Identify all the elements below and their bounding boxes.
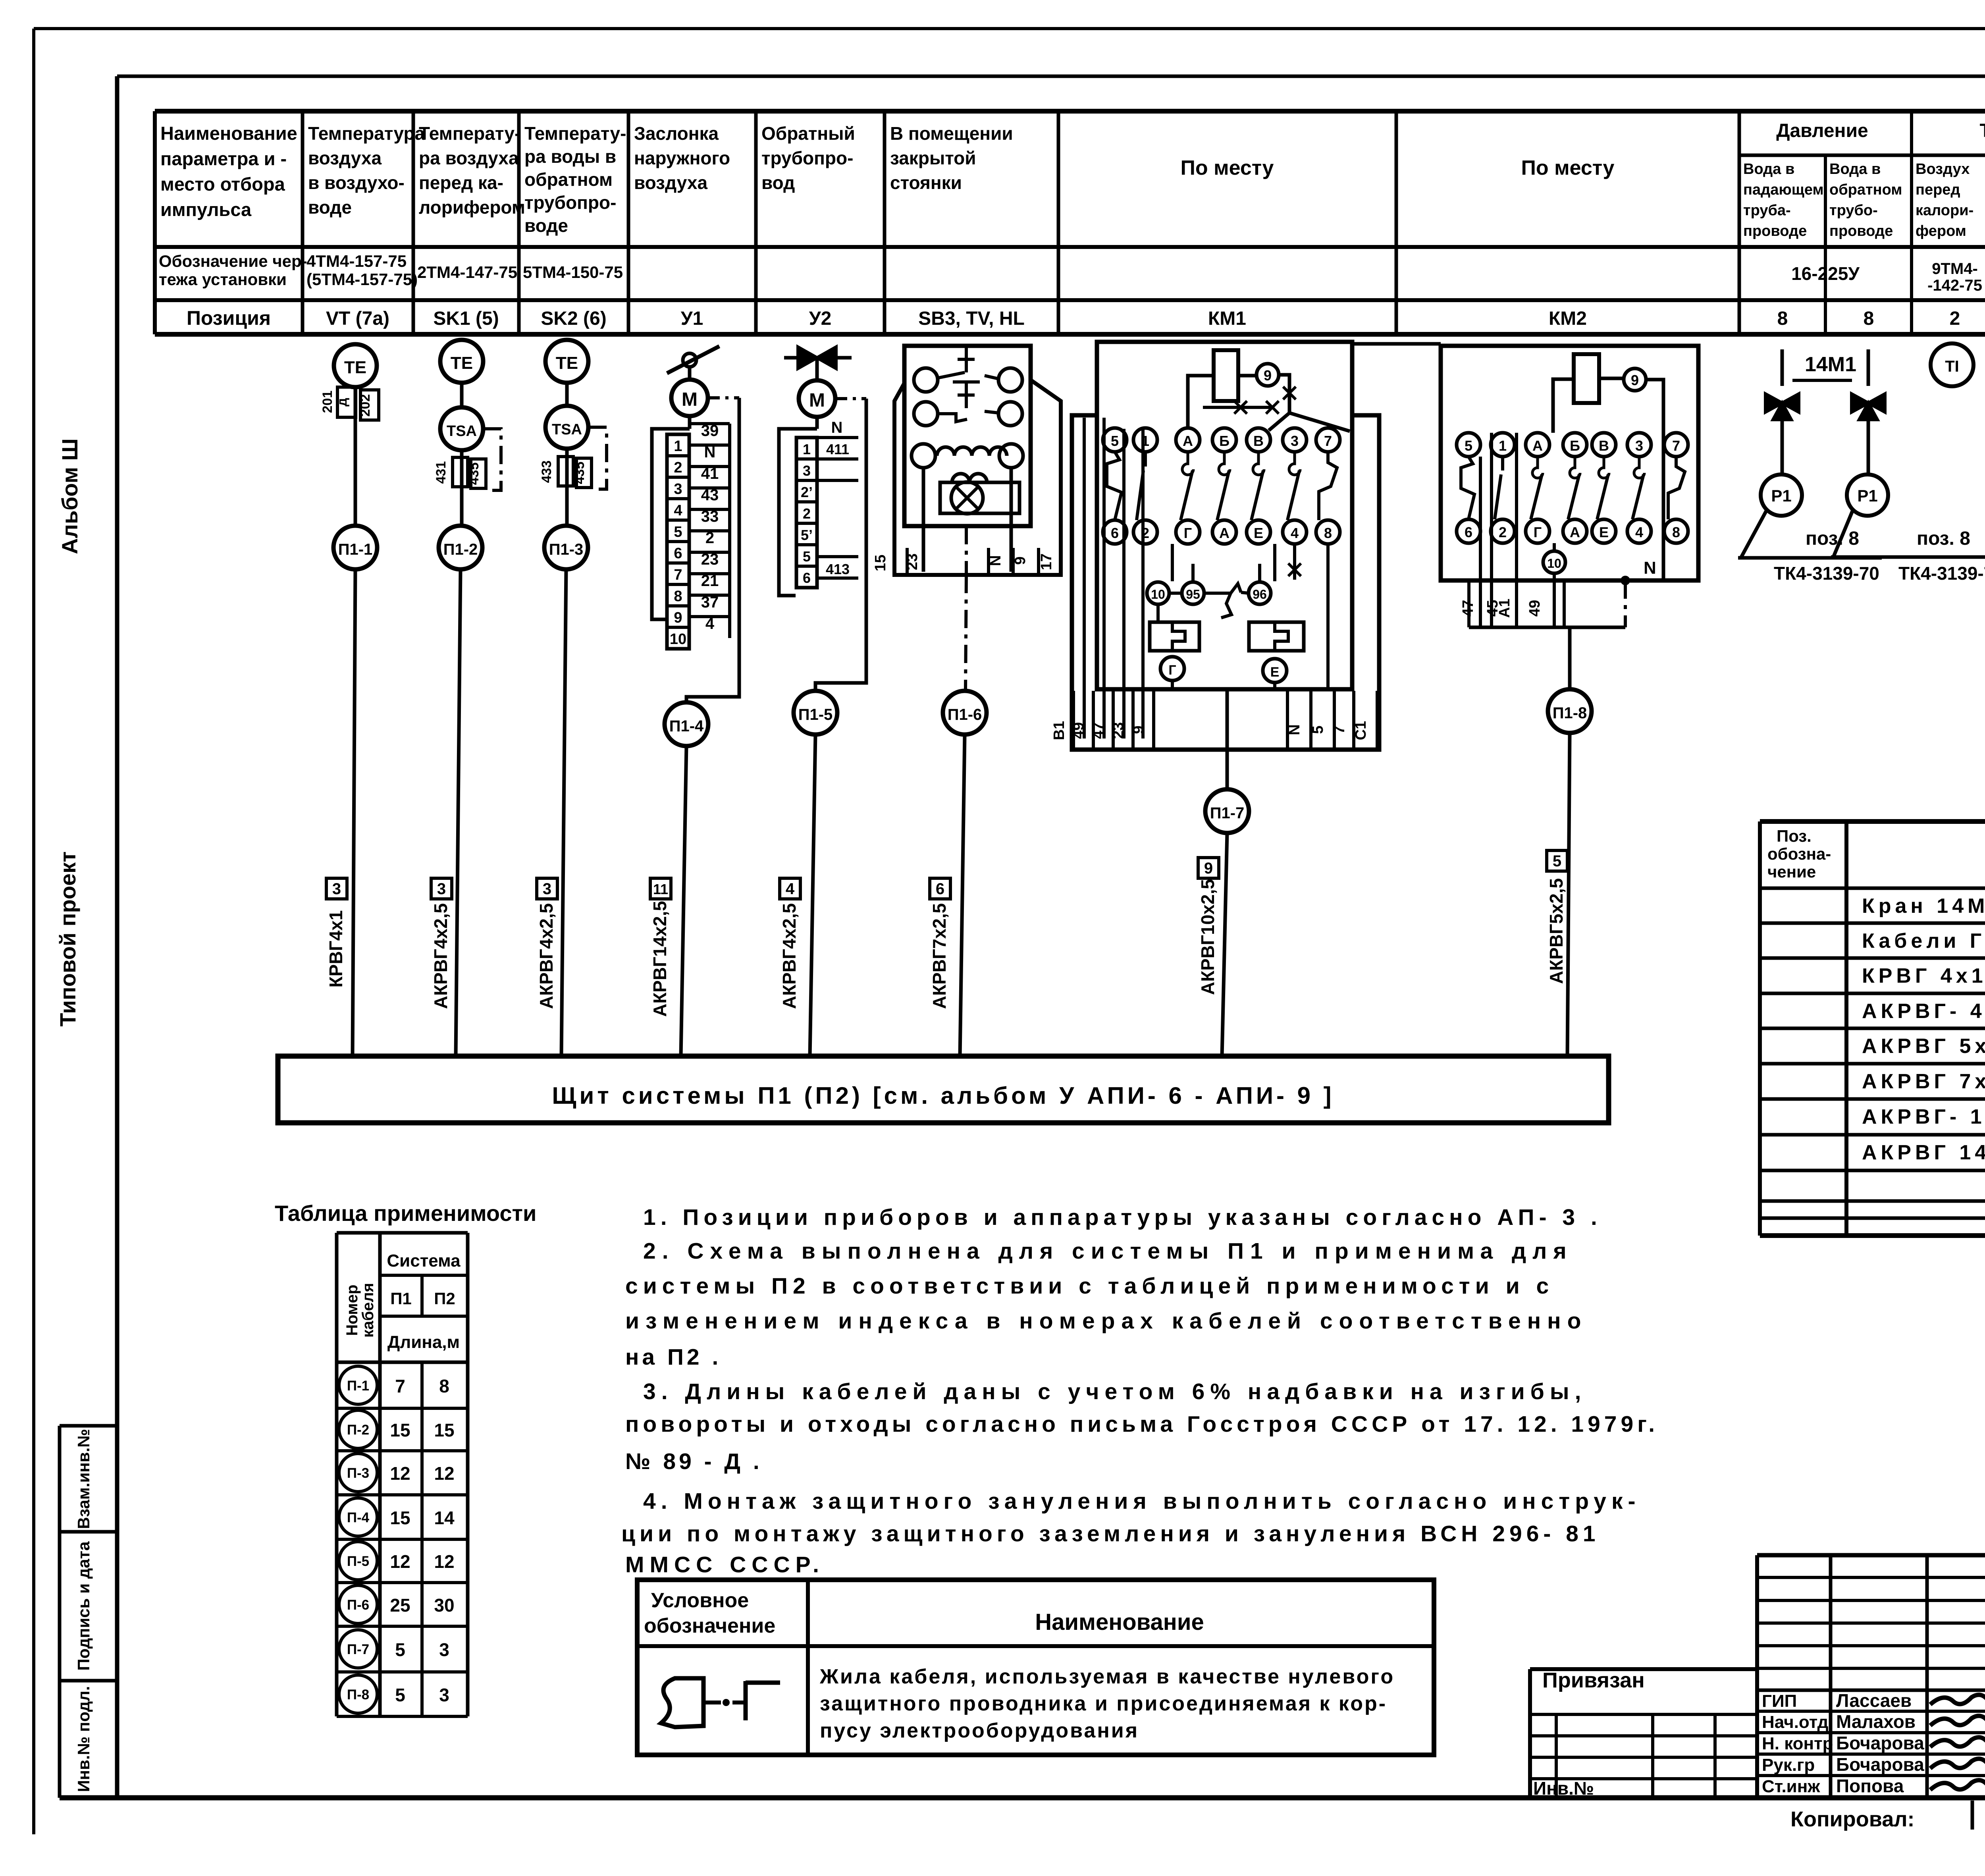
KM1 wires terminals to band [1156,604,1160,622]
svg-text:5: 5 [674,524,682,540]
wire SB3 to P1-6 dash [965,526,968,575]
svg-text:Обозначение чер-: Обозначение чер- [159,252,307,270]
svg-text:Инв.№ подл.: Инв.№ подл. [74,1686,93,1792]
svg-text:Нач.отд: Нач.отд [1762,1712,1829,1732]
svg-text:2: 2 [803,505,811,522]
signature scribble 4 [1930,1759,1985,1768]
SB3 outer box [894,380,1061,575]
terminal strip XT2 [796,438,817,588]
svg-text:33: 33 [701,508,719,525]
svg-text:431: 431 [434,461,449,484]
drawing frame [115,76,119,1798]
svg-text:П-7: П-7 [347,1642,369,1657]
wire P1-1 to panel [353,569,355,1056]
svg-text:По месту: По месту [1521,156,1615,179]
svg-text:П-2: П-2 [347,1422,369,1438]
svg-text:П1-1: П1-1 [338,541,373,558]
KM1 internal vertical wires [1083,418,1086,738]
svg-text:П-4: П-4 [347,1510,370,1525]
svg-text:4: 4 [705,615,715,632]
motor M2 [799,380,835,417]
svg-text:3: 3 [437,880,446,898]
svg-text:2ТМ4-147-75: 2ТМ4-147-75 [417,263,517,281]
junction boxes 433/435 [558,457,573,486]
svg-text:3: 3 [674,481,682,497]
contactor KM2 box [1441,346,1698,580]
svg-text:47: 47 [1460,600,1476,617]
svg-text:12: 12 [434,1463,454,1484]
KM1 main contacts [1103,428,1127,452]
svg-text:433: 433 [539,461,554,483]
svg-text:6: 6 [674,545,682,562]
svg-text:9: 9 [1264,367,1272,384]
wire P1-3 to panel [561,569,566,1056]
cable circle P1-8 [1548,689,1592,733]
svg-text:Е: Е [1270,665,1280,680]
svg-text:5: 5 [1465,438,1472,454]
wire TSA1 to P1-2 [460,450,464,526]
svg-text:ра воды в: ра воды в [524,146,616,167]
svg-text:трубо-: трубо- [1829,202,1878,219]
wire KM2 to P1-8 [1568,627,1572,689]
svg-text:6: 6 [1465,524,1472,540]
svg-text:1. Позиции приборов и аппара: 1. Позиции приборов и аппаратуры указаны… [643,1205,1602,1230]
svg-text:трубопро-: трубопро- [761,148,853,168]
wire P1-5 to panel [810,735,815,1056]
svg-text:Типовой проект: Типовой проект [55,851,80,1026]
svg-text:9: 9 [674,609,682,626]
svg-text:43: 43 [701,486,719,504]
svg-text:кабеля: кабеля [359,1283,377,1338]
svg-text:А: А [1532,438,1543,454]
svg-text:4: 4 [1635,524,1643,540]
svg-text:7: 7 [1331,725,1348,734]
cable circle P1-5 [794,691,837,735]
svg-text:5: 5 [803,548,811,565]
svg-text:П-3: П-3 [347,1465,369,1481]
cable row П-5 [339,1542,377,1580]
svg-text:АКРВГ 14х 2,5: АКРВГ 14х 2,5 [1862,1141,1985,1164]
M2 left bypass wire [779,429,817,596]
three-way valve 1 [1765,394,1799,420]
svg-text:У1: У1 [681,308,703,329]
M1 left bypass wire [652,429,690,619]
svg-text:15: 15 [872,555,889,571]
svg-text:перед ка-: перед ка- [419,172,503,193]
thermometer TE1 [334,344,377,387]
svg-text:Рук.гр: Рук.гр [1762,1755,1815,1775]
svg-text:15: 15 [390,1420,410,1440]
signature scribble 5 [1930,1780,1985,1790]
svg-text:в воздухо-: в воздухо- [308,172,405,193]
svg-text:ра воздуха: ра воздуха [419,148,519,168]
legend table [637,1580,1434,1755]
svg-text:воде: воде [308,197,352,218]
air damper Y1 [667,346,719,373]
svg-text:15: 15 [434,1420,454,1440]
svg-text:АКРВГ14х2,5: АКРВГ14х2,5 [649,901,670,1017]
svg-text:д: д [335,398,350,407]
svg-text:23: 23 [701,551,719,568]
svg-text:КМ2: КМ2 [1549,308,1587,329]
pushbutton SB3 contact 2 [914,402,938,426]
svg-text:6: 6 [936,880,944,898]
svg-text:Б: Б [1570,438,1580,454]
svg-text:Р1: Р1 [1771,486,1791,505]
svg-text:7: 7 [395,1376,405,1396]
svg-text:41: 41 [701,465,719,482]
svg-text:Условное: Условное [651,1589,749,1612]
TSA1 tail dash [483,429,501,490]
svg-text:Е: Е [1599,524,1609,540]
thermostat TSA1 [440,407,483,450]
svg-text:3: 3 [439,1685,449,1705]
svg-text:Р1: Р1 [1857,486,1877,505]
KM2 wire from 9 [1646,380,1663,580]
svg-text:У2: У2 [809,308,832,329]
svg-text:П-6: П-6 [347,1597,369,1613]
svg-text:воздуха: воздуха [308,148,382,168]
svg-text:3: 3 [543,880,551,898]
svg-text:П1-5: П1-5 [798,706,833,723]
wire TE2-TSA [460,383,464,407]
KM1 thermal element 2 [1249,622,1304,651]
KM1 aux circle 9 [1257,364,1279,386]
svg-text:11: 11 [653,881,668,897]
margin stamp column [60,1424,117,1428]
wire TE3-TSA2 [565,383,569,406]
svg-text:Жила кабеля, используемая в: Жила кабеля, используемая в качестве нул… [819,1665,1395,1688]
svg-text:Е: Е [1254,525,1263,541]
svg-text:импульса: импульса [160,199,252,220]
cable label AKRVG7x2.5 [930,878,950,899]
svg-text:Взам.инв.№: Взам.инв.№ [74,1429,93,1529]
svg-text:М: М [809,390,825,411]
KM2 aux circle 10 [1543,551,1565,573]
signature scribble 1 [1930,1695,1985,1704]
svg-text:вод: вод [761,172,795,193]
svg-text:защитного проводника и присо: защитного проводника и присоединяемая к … [820,1692,1387,1715]
pushbutton post SB3 box [904,346,1031,526]
KM2 aux circle 9 [1624,368,1646,391]
cable circle P1-7 [1205,789,1249,833]
wire P1-4 to panel [681,746,686,1056]
svg-text:12: 12 [390,1463,410,1484]
svg-text:N: N [704,443,716,461]
svg-text:96: 96 [1253,587,1267,602]
wire TE1 to P1-1 [354,387,357,526]
svg-text:4: 4 [786,880,795,898]
svg-text:Лассаев: Лассаев [1836,1690,1912,1711]
cable label AKRVG14x2.5 [650,878,671,899]
svg-text:201: 201 [320,391,335,413]
svg-text:А1: А1 [1496,599,1513,618]
TSA2 tail dash [588,427,607,489]
svg-text:SK2 (6): SK2 (6) [541,308,606,329]
legend cable core symbol [661,1678,703,1727]
cable row П-1 [339,1366,377,1404]
svg-text:Ст.инж: Ст.инж [1762,1777,1820,1796]
svg-text:8: 8 [674,588,682,605]
svg-text:№ 89 - Д .: № 89 - Д . [625,1449,763,1474]
svg-text:Температура: Температура [308,123,425,144]
svg-text:Бочарова: Бочарова [1836,1733,1924,1753]
svg-text:2: 2 [1499,524,1507,540]
thermometer TE2 [440,340,483,383]
svg-text:Вода в: Вода в [1829,161,1881,177]
wire P1-6 to panel [960,735,965,1056]
svg-text:N: N [831,419,843,436]
svg-text:фером: фером [1916,223,1966,239]
svg-text:8: 8 [1777,308,1788,329]
KM1 wire from 9 with x-marks [1279,375,1289,413]
SB3 internal wires [922,468,925,572]
svg-text:Таблица применимости: Таблица применимости [275,1201,536,1226]
svg-text:проводе: проводе [1743,223,1807,239]
svg-text:АКРВГ- 10х2,5: АКРВГ- 10х2,5 [1862,1105,1985,1128]
KM2 coil [1574,354,1599,403]
svg-text:3: 3 [803,463,811,479]
KM1 aux contacts 10 95 96 [1147,582,1169,604]
thermometer TE3 [545,340,588,383]
cable label AKRVG10x2.5 [1198,858,1219,878]
terminal strip XT1 [667,434,689,649]
svg-text:6: 6 [803,570,811,586]
svg-text:Воздух: Воздух [1916,161,1970,177]
svg-text:5: 5 [1310,725,1326,734]
svg-text:47: 47 [1090,722,1107,739]
svg-text:9: 9 [1012,556,1029,565]
svg-text:8: 8 [1324,525,1332,541]
svg-text:12: 12 [434,1551,454,1572]
svg-text:П1-7: П1-7 [1210,804,1245,822]
cable label AKRVG4x2.5 no5 [780,878,800,899]
svg-text:Бочарова: Бочарова [1836,1754,1924,1775]
svg-text:-142-75: -142-75 [1927,277,1982,294]
svg-text:2: 2 [705,529,714,547]
svg-text:АКРВГ5х2,5: АКРВГ5х2,5 [1546,878,1567,984]
svg-text:Н. контр: Н. контр [1762,1734,1833,1753]
svg-text:поз. 8: поз. 8 [1806,528,1859,549]
svg-text:Температура: Температура [1980,120,1985,141]
svg-text:9: 9 [1130,725,1147,734]
svg-text:Привязан: Привязан [1542,1668,1645,1692]
svg-text:5ТМ4-150-75: 5ТМ4-150-75 [523,263,623,281]
svg-text:воде: воде [524,215,568,236]
svg-text:Щит системы П1 (П2) [см.: Щит системы П1 (П2) [см. альбом У АПИ- 6… [552,1082,1334,1109]
svg-text:Вода в: Вода в [1743,161,1794,177]
svg-text:Длина,м: Длина,м [387,1332,460,1352]
svg-text:пусу электрооборудования: пусу электрооборудования [820,1719,1139,1742]
svg-text:3: 3 [1635,438,1643,454]
KM2 main contacts [1457,433,1480,457]
svg-text:1: 1 [1499,438,1507,454]
KM1 limit switch blades [1107,452,1122,520]
svg-text:воздуха: воздуха [634,172,708,193]
svg-text:труба-: труба- [1743,202,1791,219]
svg-text:9ТМ4-: 9ТМ4- [1932,260,1978,278]
svg-text:Г: Г [1168,663,1176,678]
sheet top band line [117,75,1985,78]
KM2 bottom terminal cells [1467,580,1470,627]
wire P1-2 to panel [456,569,461,1056]
svg-text:435: 435 [466,463,482,485]
svg-text:трубопро-: трубопро- [524,192,616,213]
title block signature grid [1757,1553,1985,1558]
svg-text:Номер: Номер [343,1284,361,1336]
svg-text:проводе: проводе [1829,223,1893,239]
svg-text:По месту: По месту [1181,156,1274,179]
svg-text:Г: Г [1184,525,1192,541]
cable circle P1-3 [544,526,588,569]
svg-text:6: 6 [1111,525,1119,541]
svg-text:10: 10 [670,631,686,648]
svg-text:С1: С1 [1353,721,1369,740]
svg-text:SB3, TV, HL: SB3, TV, HL [918,308,1025,329]
svg-text:чение: чение [1767,862,1816,881]
svg-text:N: N [1286,724,1303,735]
wire P1-7 to panel [1222,833,1227,1056]
pushbutton SB3 contact 1 [914,368,938,392]
svg-text:тежа установки: тежа установки [159,270,287,289]
M2 right return wire [815,399,866,691]
svg-text:АКРВГ 7х 2,5: АКРВГ 7х 2,5 [1862,1070,1985,1093]
KM1 aux terminal G [1160,657,1184,681]
svg-text:системы П2 в соответствии: системы П2 в соответствии с таблицей при… [625,1273,1554,1299]
svg-text:ТSА: ТSА [552,421,582,438]
svg-text:обозначение: обозначение [644,1614,775,1637]
KM2 N dash wire [1624,580,1627,627]
parameters header table [155,109,1985,114]
svg-text:обратном: обратном [524,169,613,190]
svg-text:АКРВГ10х2,5: АКРВГ10х2,5 [1197,879,1218,995]
svg-text:2: 2 [674,459,682,476]
svg-text:Наименование: Наименование [1035,1609,1204,1635]
svg-text:ТЕ: ТЕ [344,358,366,377]
cable label AKRVG5x2.5 [1547,850,1567,871]
svg-text:37: 37 [701,594,719,611]
valve Y2 [784,356,852,360]
svg-text:повороты и отходы согласно: повороты и отходы согласно письма Госстр… [625,1411,1659,1437]
cable row П-6 [339,1585,377,1623]
pressure gauge P1 left [1761,474,1802,516]
svg-text:В помещении: В помещении [890,123,1013,144]
svg-text:Кран 14М1 ГОСТ 21345-78: Кран 14М1 ГОСТ 21345-78 [1862,895,1985,918]
svg-text:П1-2: П1-2 [443,541,478,558]
svg-text:КРВГ 4х1: КРВГ 4х1 [1862,964,1985,987]
svg-text:(5ТМ4-157-75): (5ТМ4-157-75) [306,270,418,289]
svg-text:В: В [1599,438,1609,454]
svg-text:ции по монтажу защитного: ции по монтажу защитного заземления и за… [621,1521,1600,1546]
svg-text:Б: Б [1219,433,1230,449]
svg-text:2. Схема выполнена для си: 2. Схема выполнена для системы П1 и прим… [643,1238,1573,1264]
svg-text:параметра и -: параметра и - [160,148,287,169]
wire P1-8 to panel [1567,733,1570,1056]
KM2 limit switch blades [1461,457,1474,519]
svg-text:9: 9 [1631,372,1639,388]
M2 wire to strip [815,417,819,429]
svg-text:А: А [1219,525,1230,541]
svg-text:П-8: П-8 [347,1687,369,1702]
svg-text:КМ1: КМ1 [1208,308,1246,329]
wire KM1 to P1-7 [1226,750,1229,789]
svg-text:202: 202 [358,394,373,417]
svg-text:калори-: калори- [1916,202,1973,219]
svg-text:Инв.№: Инв.№ [1533,1778,1594,1799]
contactor KM1 inner box [1097,342,1352,689]
svg-text:23: 23 [904,553,921,570]
svg-text:21: 21 [701,572,719,590]
motor M1 [671,380,708,416]
svg-text:7: 7 [1324,433,1332,449]
svg-text:перед: перед [1916,181,1960,198]
svg-text:Копировал:: Копировал: [1790,1807,1915,1831]
svg-text:39: 39 [701,422,719,440]
svg-text:ТЕ: ТЕ [451,353,473,373]
svg-text:АКРВГ4х2,5: АКРВГ4х2,5 [536,903,557,1009]
svg-text:95: 95 [1186,587,1200,602]
M1 right return wire [686,398,739,703]
svg-text:411: 411 [826,441,849,457]
parts list table [1760,819,1985,824]
svg-text:Попова: Попова [1836,1776,1904,1796]
svg-text:Заслонка: Заслонка [634,123,719,144]
svg-text:30: 30 [434,1595,454,1616]
svg-text:П2: П2 [434,1289,455,1308]
svg-text:АКРВГ 5х2,5: АКРВГ 5х2,5 [1862,1035,1985,1058]
svg-text:SK1 (5): SK1 (5) [433,308,499,329]
svg-text:изменением индекса в номе: изменением индекса в номерах кабелей соо… [625,1308,1587,1334]
svg-text:49: 49 [1526,600,1543,617]
svg-text:8: 8 [1672,524,1680,540]
cable label KRVG4x1 [326,878,347,899]
panel Shchit sistemy P1 [278,1056,1609,1123]
svg-text:П-1: П-1 [347,1378,369,1394]
svg-text:Поз.: Поз. [1777,827,1812,845]
svg-text:стоянки: стоянки [890,172,962,193]
cable row П-4 [339,1498,377,1536]
svg-text:П1: П1 [390,1289,412,1308]
svg-text:5: 5 [1553,852,1561,870]
svg-text:А: А [1183,433,1193,449]
transformer TV winding [912,444,935,468]
svg-text:Г: Г [1534,524,1542,540]
junction boxes 201/202 [337,387,356,417]
svg-text:4: 4 [674,502,682,519]
svg-text:49: 49 [1070,722,1087,739]
svg-text:10: 10 [1547,556,1561,571]
svg-text:14: 14 [434,1508,455,1528]
svg-text:14М1: 14М1 [1805,353,1856,376]
svg-text:VT (7а): VT (7а) [326,308,389,329]
svg-text:8: 8 [1864,308,1874,329]
svg-text:2ʼ: 2ʼ [801,484,813,500]
svg-text:Температу-: Температу- [524,123,626,144]
svg-text:7: 7 [1672,438,1680,454]
junction boxes 431/435 [453,457,468,487]
cable circle P1-2 [439,526,482,569]
svg-text:4ТМ4-157-75: 4ТМ4-157-75 [306,252,407,270]
svg-text:Подпись и дата: Подпись и дата [74,1541,93,1671]
svg-text:Давление: Давление [1776,120,1868,141]
svg-text:4. Монтаж защитного занул: 4. Монтаж защитного зануления выполнить … [643,1488,1640,1514]
svg-text:413: 413 [826,561,850,577]
svg-text:3: 3 [1291,433,1299,449]
svg-text:Кабели ГОСТ 1508-78* Е: Кабели ГОСТ 1508-78* Е [1862,929,1985,952]
svg-text:наружного: наружного [634,148,730,168]
svg-text:5ʼ: 5ʼ [801,527,813,543]
svg-text:В1: В1 [1051,721,1068,740]
